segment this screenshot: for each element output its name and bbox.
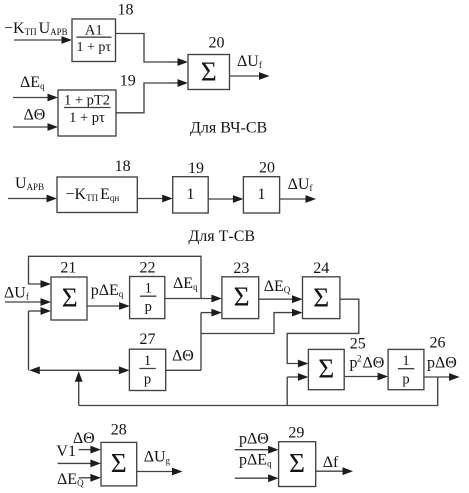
- wire block22 to summator23: [165, 298, 213, 300]
- wire output dUf row2: [280, 198, 307, 200]
- wire pdTheta to summator25 input2: [287, 376, 299, 378]
- wire summator25 to block26: [344, 376, 378, 378]
- wire block27 output to riser: [166, 369, 201, 371]
- wire dEq arrow to block 19: [13, 97, 49, 99]
- svg-text:pΔΘ: pΔΘ: [427, 355, 457, 372]
- wire input arrow to block 18: [14, 39, 63, 41]
- svg-text:ΔΘ: ΔΘ: [363, 355, 385, 372]
- svg-text:22: 22: [140, 259, 156, 276]
- svg-text:Для ВЧ-СВ: Для ВЧ-СВ: [190, 120, 267, 137]
- summator block 21: [51, 277, 87, 320]
- wire pdTheta riser with up arrow: [78, 381, 80, 406]
- svg-text:ΔUf: ΔUf: [237, 53, 262, 70]
- svg-text:Σ: Σ: [313, 282, 329, 313]
- block 26 integrator 1/p: [388, 349, 424, 389]
- svg-text:Δf: Δf: [323, 454, 339, 471]
- wire output dUg: [137, 471, 173, 473]
- svg-text:2: 2: [357, 354, 362, 364]
- wire dEQ arrow b28: [79, 477, 92, 479]
- svg-text:Σ: Σ: [318, 353, 334, 384]
- svg-text:p: p: [144, 371, 151, 387]
- svg-text:19: 19: [188, 160, 204, 177]
- block 18 gain -Ktp Eqn: [57, 177, 137, 213]
- wire summator23 to summator24: [259, 298, 293, 300]
- svg-text:23: 23: [233, 260, 249, 277]
- svg-text:Σ: Σ: [62, 282, 78, 313]
- wire block18 to block19 row2: [137, 198, 163, 200]
- wire pdEq arrow b29: [235, 477, 269, 479]
- summator block 24: [303, 277, 340, 319]
- wire pdTheta feedback bottom line: [79, 377, 438, 406]
- wire block26 output pdTheta: [424, 376, 450, 378]
- svg-text:Σ: Σ: [111, 447, 127, 478]
- wire input arrow to block 18 row2: [8, 198, 48, 200]
- svg-text:29: 29: [288, 425, 304, 442]
- svg-text:ΔUf: ΔUf: [4, 285, 29, 302]
- wire dUf input arrow: [5, 301, 42, 303]
- block 19 transfer (1+pT2)/(1+p tau): [58, 90, 116, 136]
- wire summator21 to block22: [87, 305, 120, 307]
- svg-text:ΔΘ: ΔΘ: [73, 430, 95, 447]
- wire pdTheta arrow b29: [235, 449, 269, 451]
- block 19 unity row2: [173, 177, 209, 213]
- svg-text:Σ: Σ: [289, 447, 305, 478]
- summator block 28: [101, 442, 137, 486]
- wire dTheta arrow b28: [79, 449, 92, 451]
- svg-text:1: 1: [402, 353, 409, 369]
- svg-text:1: 1: [144, 353, 151, 369]
- svg-text:1: 1: [145, 281, 152, 297]
- svg-text:26: 26: [430, 335, 446, 352]
- svg-text:1 + pτ: 1 + pτ: [69, 110, 105, 126]
- svg-text:p: p: [402, 372, 409, 388]
- wire dEq feedback top line: [29, 256, 202, 298]
- wire block19 to block20 row2: [208, 198, 234, 200]
- wire block18 to summator 20: [116, 34, 169, 63]
- wire dTheta branch to summator24 input2: [201, 313, 293, 334]
- svg-text:18: 18: [115, 158, 131, 175]
- svg-text:19: 19: [120, 73, 136, 90]
- summator block 29: [279, 442, 316, 487]
- svg-text:1: 1: [258, 186, 266, 203]
- svg-text:Σ: Σ: [234, 281, 250, 312]
- wire output dUf row1: [230, 75, 260, 77]
- summator block 25: [308, 349, 344, 389]
- svg-text:Для Т-СВ: Для Т-СВ: [188, 228, 255, 245]
- summator block 20 row1: [188, 55, 230, 90]
- svg-text:27: 27: [140, 331, 156, 348]
- svg-text:28: 28: [111, 422, 127, 439]
- svg-text:1 + рТ2: 1 + рТ2: [64, 92, 110, 108]
- svg-text:21: 21: [60, 260, 76, 277]
- summator block 23: [222, 277, 259, 319]
- svg-text:1 + pτ: 1 + pτ: [77, 40, 112, 55]
- block 20 unity row2: [243, 177, 279, 213]
- svg-text:1: 1: [187, 186, 195, 203]
- block 27 integrator 1/p: [129, 349, 165, 390]
- svg-text:А1: А1: [85, 23, 103, 39]
- svg-text:p: p: [145, 299, 152, 315]
- svg-text:ΔUf: ΔUf: [288, 176, 313, 193]
- svg-text:20: 20: [259, 160, 275, 177]
- svg-text:pΔΘ: pΔΘ: [239, 431, 269, 448]
- wire block19 to summator 20: [116, 83, 168, 113]
- svg-text:Σ: Σ: [201, 56, 217, 87]
- wire dTheta to summator23 input2: [201, 312, 212, 314]
- block 22 integrator 1/p: [130, 277, 165, 319]
- svg-text:ΔΘ: ΔΘ: [172, 348, 194, 365]
- svg-text:18: 18: [118, 2, 134, 19]
- svg-text:V1: V1: [56, 443, 76, 460]
- wire horizontal into block 27 with left arrow: [39, 369, 120, 371]
- wire pdTheta into summator 21: [29, 310, 42, 312]
- svg-text:24: 24: [313, 260, 329, 277]
- wire output df: [316, 470, 344, 472]
- wire V1 arrow b28: [58, 462, 92, 464]
- svg-text:ΔΘ: ΔΘ: [24, 107, 46, 124]
- wire summator24 output feedback to summator25: [287, 299, 359, 363]
- svg-text:20: 20: [209, 35, 225, 52]
- svg-text:25: 25: [350, 336, 366, 353]
- block 18 transfer A1/(1+p tau): [72, 19, 116, 62]
- wire dTheta arrow to block 19: [13, 126, 49, 128]
